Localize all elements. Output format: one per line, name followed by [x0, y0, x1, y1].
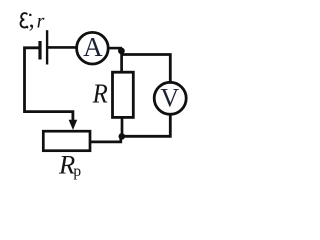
svg-text:,: ,	[29, 7, 35, 33]
wire: node 1 down to resistor R top	[120, 51, 123, 72]
ammeter U1 circle	[77, 32, 109, 64]
battery B1: long thin plate (positive)	[46, 30, 48, 64]
svg-text:V: V	[160, 84, 179, 113]
svg-text:r: r	[37, 11, 45, 33]
node 2 junction dot	[119, 133, 126, 140]
svg-text:p: p	[73, 163, 81, 180]
label EMF script E, r	[21, 7, 45, 33]
wire: battery positive to ammeter	[48, 46, 77, 49]
wire: battery negative lead, left drop and bottom run to rheostat arrow	[25, 48, 73, 121]
voltmeter U2 circle	[154, 82, 186, 114]
arrowhead of rheostat wiper	[69, 120, 78, 130]
svg-text:R: R	[92, 78, 108, 108]
rheostat Rp body	[43, 131, 90, 151]
node 1 junction dot	[118, 48, 125, 55]
wire: node 1 to top-right corner and down to voltmeter	[121, 55, 170, 82]
battery B1: short thick plate (negative)	[38, 41, 41, 60]
wire: rheostat right side to node 2 (with jog up)	[91, 136, 121, 142]
svg-text:A: A	[83, 32, 103, 62]
resistor R body	[113, 72, 134, 117]
wire: ammeter to node 1	[109, 47, 123, 50]
wire: resistor R bottom down to node 2	[121, 118, 124, 137]
wire: voltmeter bottom to bottom-right corner and left to node 2	[124, 114, 170, 136]
